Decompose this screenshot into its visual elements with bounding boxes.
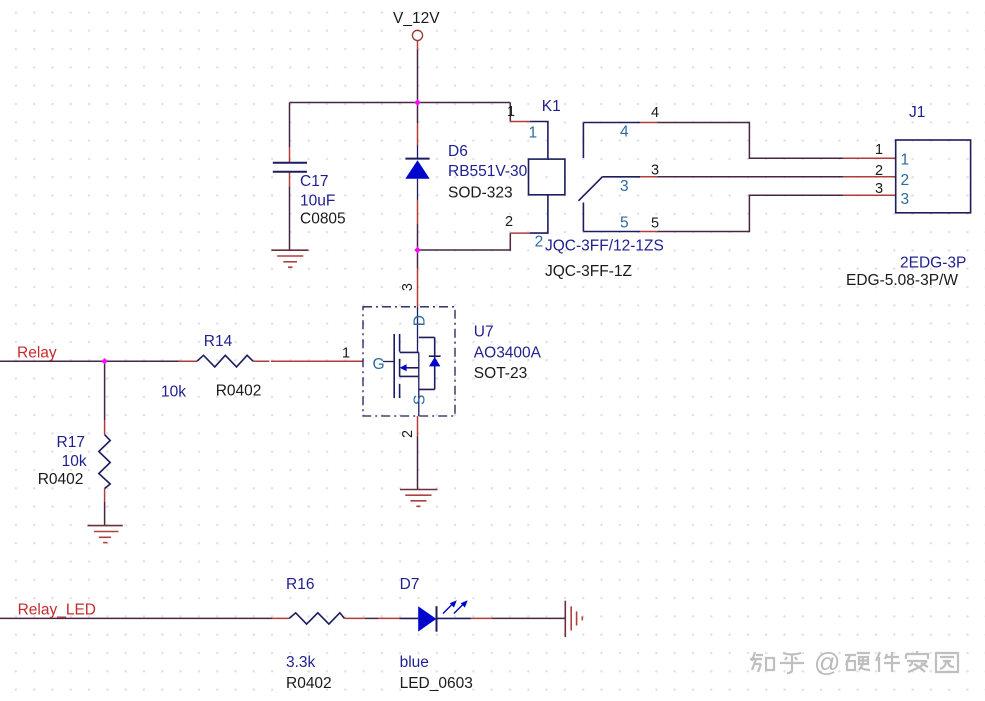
svg-text:1: 1 — [342, 346, 350, 362]
svg-text:blue: blue — [400, 654, 429, 671]
svg-text:10uF: 10uF — [300, 193, 335, 210]
svg-text:@: @ — [814, 647, 840, 677]
svg-text:3: 3 — [875, 181, 883, 197]
svg-text:G: G — [373, 356, 385, 373]
svg-text:R0402: R0402 — [286, 675, 332, 692]
svg-text:10k: 10k — [62, 453, 87, 470]
svg-text:5: 5 — [651, 216, 659, 232]
svg-text:1: 1 — [875, 142, 883, 158]
svg-text:3: 3 — [651, 163, 659, 179]
svg-text:RB551V-30: RB551V-30 — [448, 163, 528, 180]
svg-text:5: 5 — [620, 215, 629, 232]
svg-text:K1: K1 — [542, 98, 561, 115]
svg-text:10k: 10k — [161, 384, 186, 401]
svg-text:C0805: C0805 — [300, 211, 346, 228]
svg-text:SOT-23: SOT-23 — [474, 365, 527, 382]
svg-text:Relay_LED: Relay_LED — [18, 602, 96, 619]
svg-text:2: 2 — [535, 234, 544, 251]
svg-text:SOD-323: SOD-323 — [448, 185, 513, 202]
svg-text:3.3k: 3.3k — [286, 654, 316, 671]
svg-text:2: 2 — [400, 430, 416, 438]
svg-text:2EDG-3P: 2EDG-3P — [900, 255, 966, 272]
svg-text:D: D — [412, 315, 429, 326]
svg-text:JQC-3FF/12-1ZS: JQC-3FF/12-1ZS — [545, 238, 664, 255]
svg-text:3: 3 — [620, 178, 629, 195]
svg-text:S: S — [412, 395, 429, 405]
svg-text:4: 4 — [620, 124, 629, 141]
svg-text:2: 2 — [901, 172, 910, 189]
svg-text:4: 4 — [651, 105, 659, 121]
svg-text:2: 2 — [505, 214, 513, 230]
svg-text:AO3400A: AO3400A — [474, 345, 542, 362]
svg-text:2: 2 — [875, 163, 883, 179]
svg-text:J1: J1 — [909, 104, 925, 121]
svg-text:C17: C17 — [300, 173, 328, 190]
svg-text:LED_0603: LED_0603 — [400, 675, 473, 692]
svg-text:R14: R14 — [204, 333, 233, 350]
svg-text:U7: U7 — [474, 324, 494, 341]
svg-text:V_12V: V_12V — [393, 10, 440, 27]
svg-text:R17: R17 — [57, 434, 85, 451]
svg-text:1: 1 — [529, 125, 538, 142]
svg-text:D7: D7 — [400, 576, 420, 593]
svg-text:1: 1 — [507, 104, 515, 120]
svg-text:R16: R16 — [286, 576, 314, 593]
svg-text:JQC-3FF-1Z: JQC-3FF-1Z — [545, 263, 632, 280]
svg-text:3: 3 — [400, 283, 416, 291]
svg-text:R0402: R0402 — [38, 471, 84, 488]
svg-text:D6: D6 — [448, 143, 468, 160]
svg-text:3: 3 — [901, 191, 910, 208]
svg-text:EDG-5.08-3P/W: EDG-5.08-3P/W — [846, 272, 958, 289]
svg-text:Relay: Relay — [17, 345, 57, 362]
svg-text:1: 1 — [901, 152, 910, 169]
svg-text:R0402: R0402 — [216, 383, 262, 400]
